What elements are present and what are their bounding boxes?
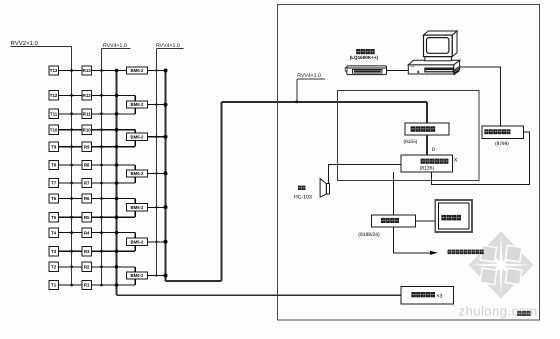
junction row 9 bus dots (70, 145, 73, 148)
wire row T9 (58, 146, 82, 148)
junction row 3 bus dots (70, 250, 73, 253)
wire module 3 top connector (134, 130, 136, 133)
junction module 1 output (155, 69, 157, 71)
junction row 5 bus dots (70, 216, 73, 219)
terminal T1 (49, 280, 58, 289)
wire row T6 (58, 198, 82, 200)
wire RVV2 riser (71, 46, 73, 285)
wire module 7 output (148, 275, 166, 277)
wire row T2 (58, 266, 82, 268)
wire 8155 to 8135 (426, 135, 428, 155)
svg-text:BM6-2: BM6-2 (131, 102, 145, 107)
sheet title (517, 311, 521, 316)
terminal R11 (82, 109, 91, 118)
isolator module BM6-2 #1 (127, 67, 148, 74)
svg-text:D: D (432, 147, 436, 153)
wire printer to PC (387, 70, 409, 72)
svg-text:R13: R13 (83, 68, 92, 73)
svg-text:BM6-2: BM6-2 (131, 171, 145, 176)
junction row 4 bus dots (70, 231, 73, 234)
junction row 1 bus dots (70, 284, 73, 287)
terminal R7 (82, 178, 91, 187)
wire module 2 bottom connector (134, 108, 136, 114)
terminal T7 (49, 178, 58, 187)
terminal R1 (82, 280, 91, 289)
wire module 6 output (148, 241, 166, 243)
wire audio bus riser (165, 71, 167, 282)
wire row T3 (58, 250, 82, 252)
wire 8188 to fire box (415, 220, 435, 222)
svg-text:T9: T9 (51, 144, 57, 149)
wire speaker to 8135 (329, 164, 401, 183)
wire module 5 bottom connector (134, 211, 136, 217)
wire row T13 (58, 70, 82, 72)
wire module 3 output (148, 136, 166, 138)
wire RVV4 riser 2 (156, 49, 158, 276)
terminal T8 (49, 160, 58, 169)
svg-text:R4: R4 (84, 230, 90, 235)
wire row T10 (58, 129, 82, 131)
junction module 2 output (155, 103, 157, 105)
wire module 2 top connector (134, 95, 136, 101)
svg-text:R9: R9 (84, 144, 90, 149)
wire row T5 (58, 216, 82, 218)
svg-text:R2: R2 (84, 265, 90, 270)
speaker horn (320, 179, 326, 198)
svg-text:R8: R8 (84, 163, 90, 168)
isolator module BM6-2 #3 (127, 133, 148, 140)
wire module 4 top connector (134, 165, 136, 170)
terminal R3 (82, 247, 91, 256)
wire trunk drop to 8155 (426, 102, 428, 123)
wire trunk riser to control (221, 102, 223, 281)
junction module 4 output (155, 172, 157, 174)
svg-text:T8: T8 (51, 163, 57, 168)
svg-text:R5: R5 (84, 215, 90, 220)
fire control box (435, 200, 472, 232)
terminal R8 (82, 160, 91, 169)
multimedia controller 8799 (482, 126, 524, 138)
wire main trunk horizontal (222, 101, 428, 103)
junction riser3/trunk (295, 100, 298, 103)
svg-text:T11: T11 (50, 112, 58, 117)
wire module 7 top connector (134, 267, 136, 272)
svg-text:(8155): (8155) (404, 139, 418, 145)
svg-text:R10: R10 (83, 127, 92, 132)
wire module 1 output (148, 70, 166, 72)
terminal T9 (49, 142, 58, 151)
isolator module BM6-2 #4 (127, 170, 148, 177)
svg-text:T4: T4 (51, 230, 57, 235)
terminal T3 (49, 247, 58, 256)
wire module 6 top connector (134, 233, 136, 239)
svg-text:T7: T7 (51, 181, 57, 186)
wire RVV4 riser 1 (101, 49, 103, 285)
wire module 3 bottom connector (134, 140, 136, 146)
svg-text:T13: T13 (50, 68, 58, 73)
svg-text:R3: R3 (84, 249, 90, 254)
svg-text:X: X (454, 158, 458, 164)
wire module 5 top connector (134, 199, 136, 204)
wire 8135 to 8188 (392, 172, 394, 215)
svg-text:R11: R11 (83, 112, 91, 117)
control room boundary box (278, 5, 540, 321)
terminal T6 (49, 194, 58, 203)
junction row 13 bus dots (70, 69, 73, 72)
junction row 2 bus dots (70, 265, 73, 268)
wire module 5 output (148, 206, 166, 208)
wire module 7 bottom connector (134, 279, 136, 285)
wire row T11 (58, 113, 82, 115)
wire 8188 down to arrow (393, 227, 430, 253)
svg-text:BM6-2: BM6-2 (131, 273, 145, 278)
wire row T7 (58, 182, 82, 184)
wire row T4 (58, 232, 82, 234)
svg-text:T5: T5 (51, 215, 57, 220)
linkage unit 8188 (372, 215, 416, 227)
wire module 2 output (148, 104, 166, 106)
isolator module BM6-2 #5 (127, 204, 148, 211)
svg-text:R6: R6 (84, 196, 90, 201)
junction row 7 bus dots (70, 182, 73, 185)
wire module 6 bottom connector (134, 245, 136, 251)
isolator module BM6-2 #6 (127, 238, 148, 245)
wire module 4 bottom connector (134, 177, 136, 183)
svg-text:T10: T10 (50, 127, 58, 132)
svg-text:(LQ1600K++): (LQ1600K++) (350, 55, 379, 60)
terminal T10 (49, 125, 58, 134)
terminal R6 (82, 194, 91, 203)
svg-text:(8799): (8799) (495, 141, 509, 147)
terminal R13 (82, 66, 91, 75)
terminal R10 (82, 125, 91, 134)
watermark logo (469, 232, 534, 299)
junction module 3 output (155, 136, 157, 138)
junction row 6 bus dots (70, 197, 73, 200)
svg-text:T1: T1 (51, 283, 57, 288)
alarm host unit 8135 (401, 155, 453, 172)
wire row T12 (58, 94, 82, 96)
svg-text:BM6-2: BM6-2 (131, 205, 145, 210)
junction row 11 bus dots (70, 112, 73, 115)
svg-text:T6: T6 (51, 196, 57, 201)
wire row T8 (58, 164, 82, 166)
svg-text:BM6-2: BM6-2 (131, 68, 145, 73)
controller unit 8155 (405, 123, 449, 135)
wire riser 3 drop (296, 79, 298, 102)
terminal R5 (82, 213, 91, 222)
terminal T12 (49, 91, 58, 100)
terminal T5 (49, 213, 58, 222)
junction module 7 output (155, 274, 157, 276)
power supply box x3 (401, 286, 454, 304)
svg-text:(8135): (8135) (420, 166, 435, 172)
svg-text:BM6-2: BM6-2 (131, 239, 145, 244)
terminal T13 (49, 66, 58, 75)
svg-text:BM6-2: BM6-2 (131, 134, 145, 139)
svg-text:(8188/24): (8188/24) (358, 232, 380, 238)
terminal T2 (49, 262, 58, 271)
svg-text:R1: R1 (84, 283, 90, 288)
svg-text:T2: T2 (51, 265, 57, 270)
label printer (356, 49, 360, 54)
terminal R9 (82, 142, 91, 151)
junction module 6 output (155, 241, 157, 243)
wire module 4 output (148, 172, 166, 174)
label to security monitoring center (448, 250, 452, 255)
svg-text:RVV4×1.0: RVV4×1.0 (297, 73, 321, 79)
junction row 10 bus dots (70, 128, 73, 131)
wire data bus riser (116, 71, 118, 296)
wire 8799 to 8135 loop (431, 132, 529, 184)
label speaker (298, 186, 302, 190)
control cabinet outline (338, 91, 480, 181)
junction row 12 bus dots (70, 94, 73, 97)
wire row T1 (58, 284, 82, 286)
terminal T11 (49, 109, 58, 118)
junction module 5 output (155, 206, 157, 208)
isolator module BM6-2 #2 (127, 101, 148, 108)
svg-text:×3: ×3 (436, 294, 442, 300)
svg-text:R7: R7 (84, 181, 90, 186)
svg-text:T12: T12 (50, 93, 58, 98)
junction row 8 bus dots (70, 164, 73, 167)
svg-text:HC-103: HC-103 (294, 195, 312, 201)
management computer (408, 31, 459, 75)
wire data trunk to power box (117, 294, 402, 296)
wire trunk bottom (166, 280, 222, 282)
terminal R12 (82, 91, 91, 100)
wire PC to 8799 (460, 67, 500, 126)
printer body (347, 66, 387, 75)
terminal R2 (82, 262, 91, 271)
terminal T4 (49, 228, 58, 237)
svg-text:R12: R12 (83, 93, 92, 98)
isolator module BM6-2 #7 (127, 272, 148, 279)
svg-text:T3: T3 (51, 249, 57, 254)
arrow to security center (430, 251, 438, 255)
terminal R4 (82, 228, 91, 237)
